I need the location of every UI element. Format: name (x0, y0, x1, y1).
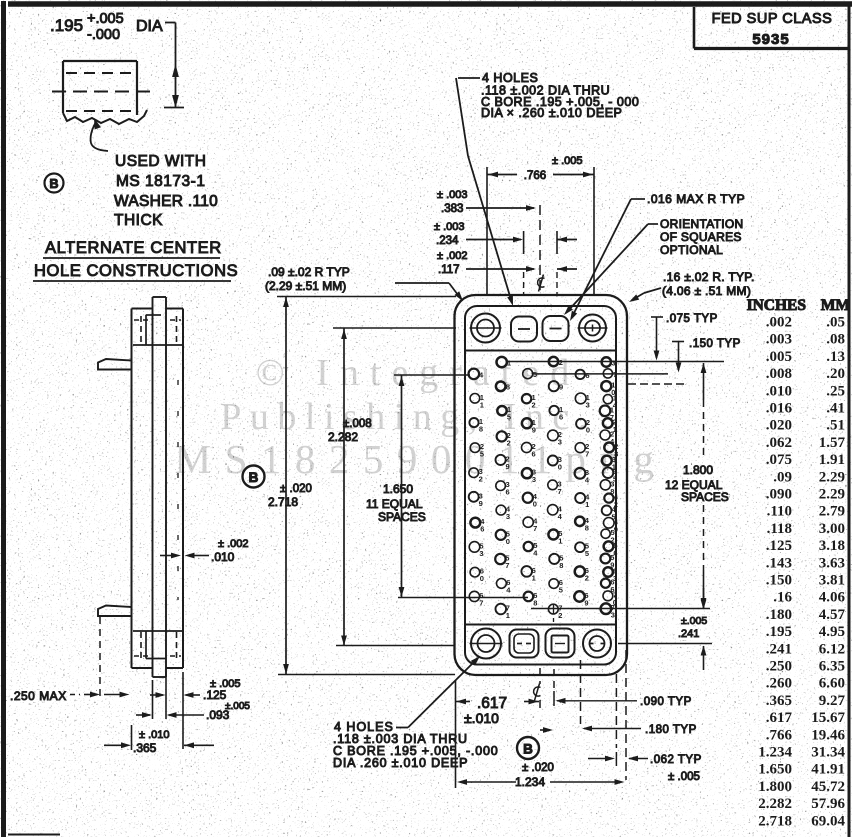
svg-text:5: 5 (480, 450, 484, 459)
svg-text:3: 3 (612, 358, 616, 367)
dimension label .195 +.005 -.000 DIA (50, 11, 184, 108)
centerline symbol top (538, 275, 545, 292)
svg-text:.383: .383 (441, 203, 463, 215)
svg-text:.195: .195 (766, 624, 792, 640)
svg-text:.062 TYP: .062 TYP (650, 754, 702, 766)
svg-text:B: B (523, 742, 533, 757)
svg-text:8: 8 (585, 523, 589, 532)
svg-text:.005: .005 (766, 349, 792, 365)
dimension .241 (618, 588, 712, 670)
svg-text:B: B (249, 470, 259, 485)
dimension .075 TYP (651, 313, 718, 361)
svg-text:15.67: 15.67 (811, 710, 845, 726)
svg-text:3.63: 3.63 (819, 555, 845, 571)
svg-text:9: 9 (532, 425, 536, 434)
svg-text:1.800: 1.800 (683, 463, 713, 477)
page border frame (8, 1, 852, 7)
square contact top B (543, 316, 569, 341)
note 4 HOLES bottom (333, 656, 498, 770)
svg-text:2.29: 2.29 (819, 469, 845, 485)
svg-text:ORIENTATION: ORIENTATION (660, 217, 744, 231)
svg-text:.365: .365 (133, 741, 157, 755)
svg-text:.20: .20 (826, 366, 845, 382)
svg-text:1: 1 (532, 573, 536, 582)
svg-text:SPACES: SPACES (378, 510, 426, 524)
svg-text:± .003: ± .003 (434, 221, 465, 233)
contact grid 80 contacts (469, 357, 619, 620)
svg-text:.51: .51 (826, 418, 845, 434)
svg-text:.150 TYP: .150 TYP (689, 338, 741, 350)
svg-text:0: 0 (533, 500, 537, 509)
title box FED SUP CLASS 5935 (694, 7, 850, 49)
svg-text:.016 MAX R TYP: .016 MAX R TYP (647, 192, 745, 206)
dimension .234 (434, 221, 577, 254)
row line bottom left (398, 597, 528, 599)
svg-text:.180: .180 (766, 607, 792, 623)
svg-text:6: 6 (480, 525, 484, 534)
dimension .617 (456, 680, 540, 788)
connector outer outline (455, 295, 628, 675)
svg-text:2: 2 (558, 611, 562, 620)
insert top line (465, 350, 616, 352)
svg-text:0: 0 (480, 574, 484, 583)
mounting hole top right (578, 315, 608, 342)
svg-text:.08: .08 (826, 332, 845, 348)
svg-text:2.282: 2.282 (328, 430, 358, 444)
leader to USED WITH note (91, 118, 108, 151)
svg-text:.125: .125 (766, 538, 792, 554)
svg-text:.010: .010 (766, 383, 792, 399)
svg-text:9.27: 9.27 (819, 693, 846, 709)
dimension .093 (136, 680, 250, 722)
svg-text:6: 6 (559, 413, 563, 422)
dashed projection lines below connector (553, 605, 555, 622)
svg-text:DIA × .260 ±.010 DEEP: DIA × .260 ±.010 DEEP (481, 106, 622, 120)
row line B (533, 373, 668, 375)
svg-text:8: 8 (559, 561, 563, 570)
svg-text:1.91: 1.91 (819, 452, 845, 468)
dimension 1.234 (457, 762, 625, 789)
svg-text:3.18: 3.18 (819, 538, 845, 554)
svg-text:.010: .010 (211, 550, 235, 564)
svg-text:.090: .090 (766, 487, 792, 503)
svg-text:6: 6 (506, 488, 510, 497)
svg-text:.241: .241 (678, 628, 699, 640)
dimension 1.650 11 equal spaces (366, 375, 470, 598)
balloon B middle (243, 466, 265, 488)
svg-text:1.800: 1.800 (758, 779, 792, 795)
svg-text:.241: .241 (766, 641, 792, 657)
svg-text:31.34: 31.34 (811, 745, 845, 761)
svg-text:.250 MAX: .250 MAX (10, 689, 67, 703)
side view bottom counterbore hidden lines (133, 631, 183, 659)
svg-text:±.010: ±.010 (464, 710, 499, 726)
svg-text:1.234: 1.234 (515, 775, 545, 789)
svg-text:3: 3 (558, 437, 562, 446)
svg-text:-.000: -.000 (87, 27, 120, 43)
svg-text:.016: .016 (766, 401, 793, 417)
svg-text:41.91: 41.91 (811, 762, 845, 778)
svg-text:9: 9 (506, 462, 510, 471)
mounting hole bottom left (470, 629, 503, 659)
svg-text:3.81: 3.81 (819, 573, 845, 589)
dimension .062 TYP (588, 752, 702, 783)
svg-text:1: 1 (506, 611, 510, 620)
svg-text:.150: .150 (766, 573, 792, 589)
svg-text:.05: .05 (826, 315, 845, 331)
svg-text:± .010: ± .010 (139, 729, 170, 741)
svg-text:2.718: 2.718 (268, 495, 298, 509)
side view center strip (153, 297, 167, 677)
svg-text:1: 1 (585, 500, 589, 509)
connector inner outline (465, 306, 616, 665)
square contact top A (511, 317, 537, 342)
svg-text:6.12: 6.12 (819, 641, 845, 657)
svg-text:2: 2 (507, 438, 511, 447)
row line C dashed (628, 383, 684, 385)
svg-text:7: 7 (479, 598, 483, 607)
svg-text:±.005: ±.005 (681, 615, 707, 627)
svg-text:6: 6 (585, 371, 589, 380)
svg-text:11 EQUAL: 11 EQUAL (366, 497, 423, 511)
svg-text:6: 6 (532, 450, 536, 459)
svg-text:± .002: ± .002 (218, 538, 249, 550)
svg-text:.090 TYP: .090 TYP (640, 696, 692, 708)
side view upper tab (98, 359, 132, 370)
svg-text:OF SQUARES: OF SQUARES (660, 230, 742, 244)
svg-text:1: 1 (558, 537, 562, 546)
svg-text:Publishing, Inc.: Publishing, Inc. (220, 396, 596, 438)
grommet section view (52, 61, 152, 124)
svg-text:.110: .110 (767, 504, 792, 520)
svg-text:± .020: ± .020 (522, 762, 554, 774)
svg-text:± .020: ± .020 (280, 483, 312, 495)
svg-text:± .005: ± .005 (668, 771, 700, 783)
dimension .117 (437, 250, 577, 276)
svg-text:.617: .617 (766, 710, 793, 726)
svg-text:5: 5 (559, 586, 563, 595)
note ORIENTATION OF SQUARES OPTIONAL (564, 217, 744, 315)
svg-text:+.005: +.005 (87, 11, 124, 27)
dimension .250 MAX (10, 617, 130, 703)
svg-text:FED SUP CLASS: FED SUP CLASS (712, 11, 833, 27)
svg-text:THICK: THICK (114, 212, 163, 229)
svg-text:2.79: 2.79 (819, 504, 845, 520)
svg-text:.234: .234 (436, 235, 459, 247)
dimension .150 TYP (672, 338, 741, 373)
svg-text:1.234: 1.234 (758, 745, 792, 761)
note .16 R TYP (629, 270, 755, 302)
note .016 MAX R TYP (570, 192, 745, 321)
svg-text:© Integrated: © Integrated (256, 352, 580, 394)
svg-text:SPACES: SPACES (681, 490, 729, 504)
dimension .766 (487, 155, 594, 296)
side view top counterbore hidden lines (133, 315, 183, 345)
svg-text:.766: .766 (524, 170, 546, 182)
svg-text:7: 7 (533, 524, 537, 533)
svg-text:.003: .003 (766, 332, 792, 348)
svg-text:1.57: 1.57 (819, 435, 846, 451)
svg-text:45.72: 45.72 (811, 779, 845, 795)
svg-text:.062: .062 (766, 435, 792, 451)
svg-text:OPTIONAL: OPTIONAL (660, 243, 723, 257)
svg-text:0: 0 (586, 426, 590, 435)
dimension .090 TYP (554, 691, 692, 708)
centerline top dashed (539, 205, 541, 294)
svg-text:7: 7 (585, 450, 589, 459)
svg-text:1: 1 (480, 400, 484, 409)
svg-text:.075 TYP: .075 TYP (666, 313, 718, 325)
svg-text:57.96: 57.96 (811, 796, 845, 812)
scan speckle overlay (0, 0, 1, 1)
mounting hole top left (470, 314, 502, 343)
svg-text:6.60: 6.60 (819, 676, 845, 692)
svg-text:B: B (49, 177, 58, 191)
svg-text:3.00: 3.00 (819, 521, 845, 537)
watermark Integrated Publishing (175, 352, 668, 482)
side view lower tab (98, 606, 132, 617)
svg-text:DIA: DIA (136, 18, 163, 35)
dimension .365 (104, 725, 214, 755)
svg-text:2.29: 2.29 (819, 487, 845, 503)
svg-text:1.650: 1.650 (758, 762, 792, 778)
dimension .180 TYP (582, 724, 697, 736)
dimension .09 R TYP (265, 265, 463, 301)
svg-text:2.718: 2.718 (758, 813, 792, 829)
svg-text:HOLE CONSTRUCTIONS: HOLE CONSTRUCTIONS (34, 262, 238, 280)
svg-text:2: 2 (585, 574, 589, 583)
svg-text:19.46: 19.46 (811, 727, 845, 743)
svg-text:7: 7 (558, 487, 562, 496)
insert bottom line (465, 624, 616, 626)
svg-text:2: 2 (479, 475, 483, 484)
svg-text:4.95: 4.95 (819, 624, 845, 640)
svg-text:6.35: 6.35 (819, 659, 845, 675)
svg-text:.008: .008 (766, 366, 792, 382)
svg-text:1.650: 1.650 (383, 482, 413, 496)
svg-text:.09 ±.02 R TYP: .09 ±.02 R TYP (268, 265, 350, 279)
svg-text:2.282: 2.282 (758, 796, 792, 812)
svg-text:3: 3 (586, 400, 590, 409)
svg-text:ALTERNATE CENTER: ALTERNATE CENTER (45, 239, 222, 257)
svg-text:± .003: ± .003 (437, 189, 468, 201)
svg-text:DIA .260 ±.010 DEEP: DIA .260 ±.010 DEEP (333, 756, 468, 770)
svg-text:9: 9 (479, 499, 483, 508)
svg-text:(4.06 ± .51 MM): (4.06 ± .51 MM) (662, 284, 751, 298)
svg-text:.250: .250 (766, 659, 792, 675)
svg-text:.09: .09 (773, 469, 792, 485)
svg-text:0: 0 (506, 537, 510, 546)
svg-text:.118: .118 (767, 521, 792, 537)
svg-text:MS 18173-1: MS 18173-1 (116, 173, 205, 190)
svg-text:.002: .002 (766, 315, 792, 331)
svg-text:INCHES: INCHES (747, 297, 806, 314)
svg-text:.766: .766 (766, 727, 793, 743)
svg-text:8: 8 (506, 383, 510, 392)
svg-text:USED WITH: USED WITH (115, 153, 206, 170)
svg-text:(2.29 ±.51 MM): (2.29 ±.51 MM) (265, 279, 346, 293)
note 4 HOLES top (456, 71, 639, 306)
row line A (507, 361, 724, 363)
svg-text:.365: .365 (766, 693, 792, 709)
svg-text:.117: .117 (438, 264, 460, 276)
svg-text:.13: .13 (826, 349, 845, 365)
dimension 2.718 (268, 297, 456, 675)
svg-text:5935: 5935 (752, 31, 789, 48)
svg-text:.020: .020 (766, 418, 792, 434)
dimension 1.800 12 equal spaces (665, 363, 729, 608)
svg-text:.143: .143 (766, 555, 792, 571)
svg-text:3: 3 (611, 611, 615, 620)
dimension .010 (160, 538, 249, 564)
svg-text:8: 8 (533, 598, 537, 607)
note USED WITH MS18173-1 WASHER .110 THICK (114, 153, 218, 229)
svg-text:7: 7 (505, 561, 509, 570)
svg-text:9: 9 (584, 599, 588, 608)
svg-text:.093: .093 (206, 708, 230, 722)
svg-text:.41: .41 (826, 401, 845, 417)
dimension .125 (150, 672, 241, 749)
svg-text:.260: .260 (766, 676, 792, 692)
svg-text:3: 3 (532, 475, 536, 484)
svg-text:4.57: 4.57 (819, 607, 846, 623)
svg-text:.16: .16 (773, 590, 792, 606)
balloon B upper left (45, 174, 64, 193)
svg-text:9: 9 (559, 383, 563, 392)
dimension 2.282 (328, 328, 456, 646)
svg-text:1: 1 (507, 359, 511, 368)
svg-text:3: 3 (506, 512, 510, 521)
svg-text:.195: .195 (50, 16, 83, 35)
svg-text:WASHER .110: WASHER .110 (114, 193, 218, 210)
square contact bottom A double (510, 630, 539, 658)
svg-text:MM: MM (821, 297, 851, 314)
svg-text:0: 0 (558, 463, 562, 472)
svg-text:5: 5 (585, 549, 589, 558)
svg-text:.25: .25 (826, 383, 845, 399)
svg-text:3: 3 (479, 549, 483, 558)
svg-text:.125: .125 (203, 688, 227, 702)
square contact bottom B square-in-square (546, 629, 575, 658)
heading ALTERNATE CENTER HOLE CONSTRUCTIONS (33, 239, 238, 281)
conversion table INCHES MM (747, 297, 851, 829)
svg-text:5: 5 (507, 413, 511, 422)
dimension .383 (437, 189, 536, 215)
svg-text:2: 2 (532, 401, 536, 410)
mounting hole bottom right (583, 630, 611, 658)
svg-text:8: 8 (479, 425, 483, 434)
svg-text:.180 TYP: .180 TYP (645, 724, 697, 736)
svg-text:.075: .075 (766, 452, 792, 468)
side view body (132, 309, 184, 669)
side view hidden edge dashes (177, 380, 179, 600)
svg-text:4.06: 4.06 (819, 590, 846, 606)
svg-text:± .002: ± .002 (437, 250, 468, 262)
row line bottom right (531, 608, 710, 610)
svg-text:2: 2 (559, 358, 563, 367)
svg-text:69.04: 69.04 (811, 813, 845, 829)
svg-text:.16 ±.02 R. TYP.: .16 ±.02 R. TYP. (663, 270, 755, 284)
svg-text:±.008: ±.008 (343, 418, 372, 430)
svg-text:± .005: ± .005 (552, 155, 583, 167)
balloon B bottom (517, 727, 553, 759)
